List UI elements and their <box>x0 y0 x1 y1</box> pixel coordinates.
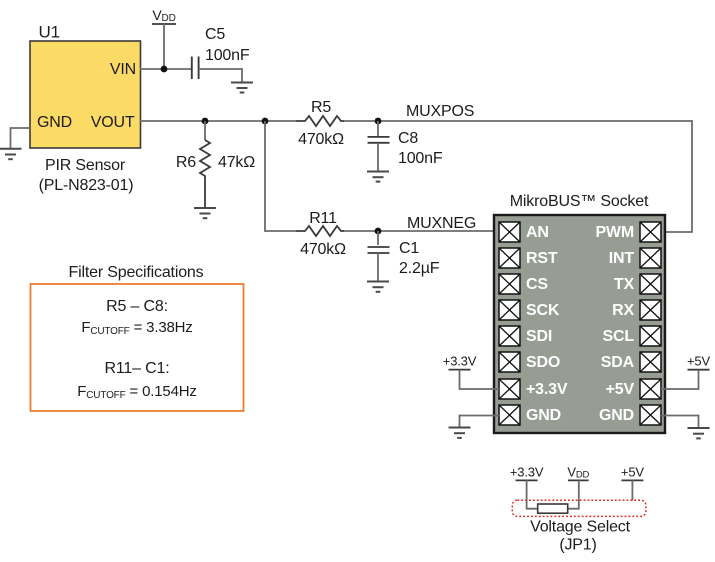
svg-text:RST: RST <box>526 250 558 267</box>
ground <box>194 208 216 218</box>
svg-text:2.2µF: 2.2µF <box>399 260 440 277</box>
svg-text:TX: TX <box>614 276 635 293</box>
svg-text:+5V: +5V <box>687 354 710 369</box>
power +5V jumper stub <box>621 465 644 501</box>
wire MUXNEG net <box>344 230 494 232</box>
svg-text:100nF: 100nF <box>205 47 250 64</box>
svg-text:SCL: SCL <box>603 328 635 345</box>
svg-text:(JP1): (JP1) <box>559 537 596 554</box>
svg-text:Filter Specifications: Filter Specifications <box>69 264 204 281</box>
capacitor C8 <box>368 121 443 172</box>
power VDD jumper <box>567 465 589 509</box>
power +3.3V jumper <box>510 465 544 509</box>
ground <box>688 428 710 438</box>
node junction C8 <box>375 118 382 125</box>
svg-text:R11: R11 <box>309 210 337 227</box>
svg-text:47kΩ: 47kΩ <box>218 154 255 171</box>
svg-text:RX: RX <box>612 302 634 319</box>
pin SCL <box>603 326 661 346</box>
capacitor C1 <box>368 231 440 282</box>
ground <box>449 428 471 438</box>
pin TX <box>614 274 661 294</box>
wire GND left <box>460 416 500 428</box>
svg-text:100nF: 100nF <box>398 150 443 167</box>
svg-text:+3.3V: +3.3V <box>510 465 544 480</box>
wire C5 to ground <box>199 69 243 83</box>
pin SDO <box>499 352 560 372</box>
wire VOUT <box>140 120 296 122</box>
svg-text:SDO: SDO <box>526 354 560 371</box>
svg-text:R5 – C8:: R5 – C8: <box>106 298 168 315</box>
pin AN <box>499 222 549 242</box>
svg-text:R11– C1:: R11– C1: <box>105 360 170 377</box>
svg-text:C1: C1 <box>399 240 419 257</box>
power VDD <box>152 7 176 69</box>
Filter Specifications note <box>31 264 244 411</box>
ground <box>367 172 389 182</box>
pin SDI <box>499 326 552 346</box>
svg-text:MUXPOS: MUXPOS <box>406 103 474 120</box>
svg-text:SDI: SDI <box>526 328 552 345</box>
jumper JP1 <box>512 500 646 553</box>
svg-text:PWM: PWM <box>595 224 634 241</box>
node junction C1 <box>375 228 382 235</box>
svg-text:+5V: +5V <box>606 381 635 398</box>
svg-text:INT: INT <box>609 250 635 267</box>
pin +3.3V <box>499 379 568 399</box>
svg-text:R5: R5 <box>311 99 331 116</box>
power +3.3V left <box>443 354 499 390</box>
svg-text:GND: GND <box>526 407 561 424</box>
wire VIN <box>140 68 191 70</box>
ground <box>0 149 22 160</box>
svg-text:PIR Sensor: PIR Sensor <box>45 157 126 174</box>
node junction branch <box>262 118 269 125</box>
ground <box>231 83 253 93</box>
pin INT <box>609 248 661 268</box>
svg-text:470kΩ: 470kΩ <box>300 241 346 258</box>
pin SDA <box>601 352 661 372</box>
svg-text:U1: U1 <box>39 23 60 42</box>
svg-text:R6: R6 <box>176 154 196 171</box>
pin GND right <box>599 405 661 425</box>
svg-text:+3.3V: +3.3V <box>526 381 568 398</box>
resistor R5 <box>296 99 344 148</box>
svg-text:VOUT: VOUT <box>91 114 135 131</box>
svg-text:GND: GND <box>37 114 72 131</box>
svg-text:470kΩ: 470kΩ <box>298 131 344 148</box>
pin PWM <box>595 222 661 242</box>
svg-text:C5: C5 <box>205 26 225 43</box>
svg-text:VIN: VIN <box>110 61 136 78</box>
svg-text:C8: C8 <box>398 130 418 147</box>
svg-text:Voltage Select: Voltage Select <box>530 519 631 536</box>
node VIN junction <box>161 66 168 73</box>
ground <box>367 282 389 292</box>
wire GND of U1 <box>11 128 31 149</box>
node junction R6 <box>202 118 209 125</box>
svg-text:SDA: SDA <box>601 354 635 371</box>
svg-text:+3.3V: +3.3V <box>443 354 477 369</box>
svg-text:SCK: SCK <box>526 302 560 319</box>
wire branch down to R11 <box>265 121 296 231</box>
svg-text:+5V: +5V <box>621 465 644 480</box>
svg-text:GND: GND <box>599 407 634 424</box>
connector MikroBUS Socket <box>494 193 665 433</box>
capacitor C5 <box>192 26 250 79</box>
svg-text:CS: CS <box>526 276 548 293</box>
pin SCK <box>499 300 560 320</box>
pin CS <box>499 274 548 294</box>
pin RST <box>499 248 558 268</box>
svg-text:MUXNEG: MUXNEG <box>407 215 476 232</box>
resistor R11 <box>296 210 346 258</box>
svg-text:(PL-N823-01): (PL-N823-01) <box>39 177 134 194</box>
svg-text:AN: AN <box>526 224 549 241</box>
power +5V right <box>661 354 710 390</box>
pin +5V <box>606 379 661 399</box>
pin GND left <box>499 405 561 425</box>
wire MUXPOS net <box>344 121 692 232</box>
resistor R6 <box>176 121 255 207</box>
pin RX <box>612 300 661 320</box>
IC U1 PIR sensor <box>30 23 141 195</box>
wire GND right <box>661 416 699 429</box>
svg-text:MikroBUS™ Socket: MikroBUS™ Socket <box>510 193 649 210</box>
